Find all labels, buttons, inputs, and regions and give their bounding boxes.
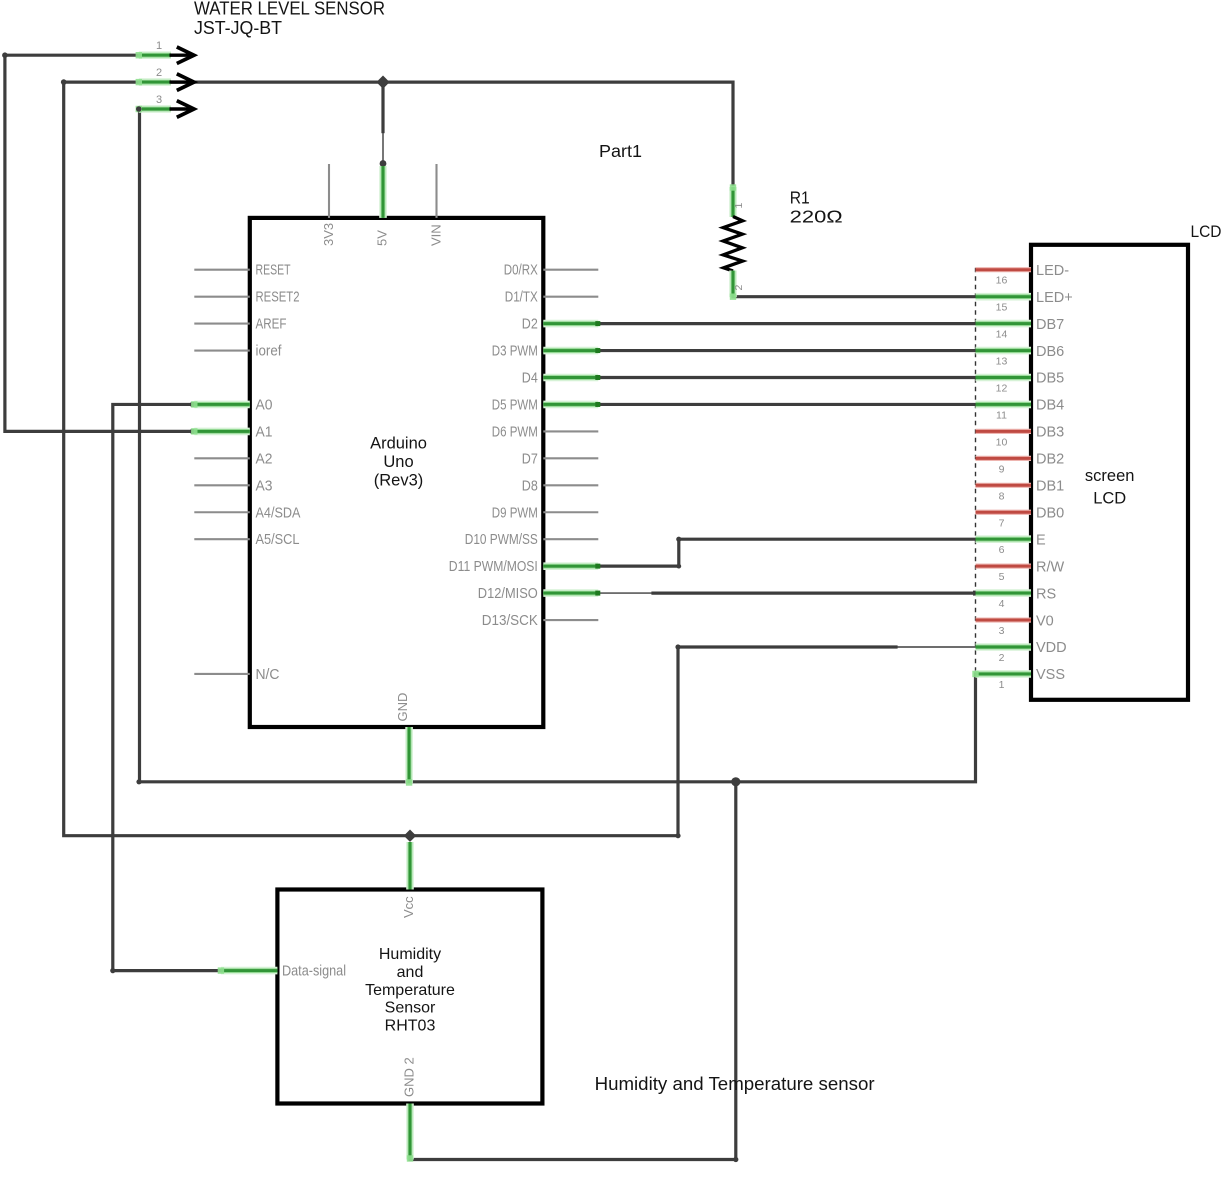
wire A1 to water sensor pin1	[5, 55, 193, 431]
Arduino pin A3	[194, 484, 250, 486]
svg-text:A1: A1	[256, 424, 273, 440]
svg-text:R/W: R/W	[1036, 559, 1065, 575]
svg-text:RESET: RESET	[256, 263, 291, 279]
junction 5V net top	[376, 76, 389, 89]
LCD pin RS (4)	[976, 589, 1032, 597]
Arduino pin D0/RX	[543, 269, 598, 271]
svg-text:6: 6	[999, 544, 1005, 556]
resistor R1 zigzag	[723, 217, 742, 271]
svg-text:Arduino: Arduino	[370, 435, 427, 453]
svg-text:RHT03: RHT03	[385, 1018, 436, 1035]
svg-text:Temperature: Temperature	[365, 982, 455, 999]
svg-text:7: 7	[999, 517, 1005, 529]
svg-text:DB5: DB5	[1036, 371, 1064, 387]
Arduino pin D13/SCK	[543, 619, 598, 621]
svg-text:V0: V0	[1036, 613, 1054, 629]
svg-text:DB1: DB1	[1036, 479, 1064, 495]
svg-text:GND 2: GND 2	[402, 1057, 417, 1097]
svg-text:DB2: DB2	[1036, 452, 1064, 468]
svg-text:LED-: LED-	[1036, 263, 1069, 279]
svg-text:14: 14	[996, 329, 1008, 341]
svg-text:15: 15	[996, 302, 1008, 314]
svg-text:AREF: AREF	[256, 317, 287, 333]
Arduino pin D12/MISO	[543, 589, 598, 597]
svg-text:D13/SCK: D13/SCK	[482, 613, 538, 629]
svg-text:3: 3	[156, 94, 162, 106]
Arduino pin D9 PWM	[543, 511, 598, 513]
svg-text:and: and	[397, 964, 424, 981]
Arduino pin 5V	[379, 166, 387, 218]
LCD pin DB6 (13)	[976, 347, 1032, 355]
wire water pin2 to 5V net vertical	[64, 82, 678, 836]
wire water pin3 to GND net	[137, 109, 141, 782]
Arduino pin D3 PWM	[543, 347, 598, 355]
wire D11 to E	[598, 539, 976, 566]
LCD pin LED- (16)	[976, 267, 1032, 272]
Arduino pin 3V3	[328, 164, 330, 218]
LCD pin DB3 (10)	[976, 429, 1032, 434]
Arduino pin A0	[194, 401, 250, 409]
wire D4 to DB5	[598, 376, 976, 379]
svg-text:Vcc: Vcc	[401, 896, 416, 918]
LCD pin DB4 (11)	[976, 401, 1032, 409]
svg-text:A0: A0	[256, 397, 273, 413]
svg-text:VIN: VIN	[428, 224, 443, 246]
svg-text:LCD: LCD	[1191, 222, 1222, 241]
svg-text:RESET2: RESET2	[256, 290, 300, 306]
Arduino pin D6 PWM	[543, 430, 598, 432]
wire R1 bottom to LED+	[733, 295, 976, 298]
svg-text:(Rev3): (Rev3)	[374, 472, 424, 490]
svg-text:9: 9	[999, 463, 1005, 475]
svg-text:D5 PWM: D5 PWM	[492, 397, 538, 413]
svg-text:2: 2	[733, 285, 745, 291]
svg-text:1: 1	[999, 679, 1005, 691]
svg-text:DB6: DB6	[1036, 344, 1064, 360]
svg-text:4: 4	[999, 598, 1005, 610]
junction GND horizontal	[731, 777, 740, 786]
Arduino pin D1/TX	[543, 296, 598, 298]
svg-text:10: 10	[996, 436, 1008, 448]
svg-text:D0/RX: D0/RX	[504, 263, 538, 279]
Arduino pin ioref	[194, 349, 250, 351]
svg-text:LED+: LED+	[1036, 290, 1073, 306]
Arduino pin RESET2	[194, 296, 250, 298]
wire A0 to Data-signal	[113, 404, 221, 970]
svg-text:D7: D7	[522, 451, 538, 467]
junction Vcc / 5V horizontal	[404, 830, 416, 842]
svg-text:A2: A2	[256, 451, 273, 467]
svg-text:3V3: 3V3	[321, 223, 336, 246]
svg-text:12: 12	[996, 383, 1008, 395]
Arduino pin A2	[194, 457, 250, 459]
svg-text:1: 1	[733, 203, 745, 209]
wire GND horizontal to VSS	[139, 674, 976, 782]
svg-text:DB4: DB4	[1036, 398, 1064, 414]
svg-text:Humidity: Humidity	[379, 946, 441, 963]
Arduino pin D7	[543, 457, 598, 459]
svg-text:220Ω: 220Ω	[790, 207, 843, 227]
LCD pin E (6)	[976, 535, 1032, 543]
svg-text:VSS: VSS	[1036, 667, 1065, 683]
svg-text:2: 2	[999, 652, 1005, 664]
svg-text:VDD: VDD	[1036, 640, 1067, 656]
svg-text:Humidity and Temperature senso: Humidity and Temperature sensor	[595, 1074, 875, 1094]
svg-text:WATER LEVEL SENSOR: WATER LEVEL SENSOR	[194, 0, 385, 19]
svg-text:R1: R1	[790, 188, 810, 208]
svg-text:D4: D4	[522, 371, 538, 387]
svg-text:D2: D2	[522, 317, 538, 333]
Arduino pin A4/SDA	[194, 511, 250, 513]
wire VDD to LCD	[678, 645, 896, 648]
svg-text:ioref: ioref	[256, 344, 283, 360]
svg-text:Part1: Part1	[599, 141, 642, 161]
svg-text:1: 1	[156, 40, 162, 52]
svg-text:N/C: N/C	[256, 667, 280, 683]
svg-text:E: E	[1036, 532, 1046, 548]
LCD pin DB2 (9)	[976, 456, 1032, 461]
RHT03 sensor box	[277, 890, 542, 1104]
svg-text:A5/SCL: A5/SCL	[256, 532, 300, 548]
svg-text:RS: RS	[1036, 586, 1056, 602]
svg-text:Data-signal: Data-signal	[282, 964, 346, 980]
wire sensor GND to GND net	[410, 782, 736, 1160]
LCD pin DB5 (12)	[976, 374, 1032, 382]
svg-text:3: 3	[999, 625, 1005, 637]
svg-text:8: 8	[999, 490, 1005, 502]
Arduino pin N/C	[194, 673, 250, 675]
svg-text:A4/SDA: A4/SDA	[256, 505, 301, 521]
LCD pin VSS (1)	[976, 670, 1032, 678]
svg-text:5: 5	[999, 571, 1005, 583]
svg-text:13: 13	[996, 356, 1008, 368]
Arduino pin VIN	[435, 164, 437, 218]
LCD pin V0 (3)	[976, 617, 1032, 622]
wire D3 to DB6	[598, 349, 976, 352]
LCD pin DB0 (7)	[976, 510, 1032, 515]
svg-text:D10 PWM/SS: D10 PWM/SS	[465, 532, 538, 548]
wire junction to 5V pin	[381, 82, 384, 132]
LCD box	[1031, 245, 1188, 700]
Arduino pin A1	[194, 428, 250, 436]
sensor pin Vcc	[406, 842, 414, 890]
svg-text:Uno: Uno	[383, 453, 413, 471]
svg-text:D1/TX: D1/TX	[505, 290, 538, 306]
svg-text:D9 PWM: D9 PWM	[492, 505, 538, 521]
wire water pin2 to R1 top	[139, 82, 733, 184]
bendpoint dots	[2, 52, 8, 58]
Arduino pin D5 PWM	[543, 401, 598, 409]
svg-text:GND: GND	[395, 693, 410, 722]
Arduino pin D10 PWM/SS	[543, 538, 598, 540]
svg-text:D8: D8	[522, 478, 538, 494]
sensor pin Data-signal	[221, 967, 278, 975]
svg-text:DB3: DB3	[1036, 425, 1064, 441]
Arduino Uno box	[250, 218, 544, 727]
svg-text:D11 PWM/MOSI: D11 PWM/MOSI	[449, 559, 538, 575]
svg-text:16: 16	[996, 275, 1008, 287]
svg-text:11: 11	[996, 409, 1007, 421]
svg-text:D12/MISO: D12/MISO	[478, 586, 538, 602]
LCD pin VDD (2)	[976, 643, 1032, 651]
Arduino pin D8	[543, 484, 598, 486]
svg-text:Sensor: Sensor	[385, 1000, 436, 1017]
svg-text:screen: screen	[1085, 467, 1135, 485]
svg-text:D6 PWM: D6 PWM	[492, 424, 538, 440]
LCD pin DB1 (8)	[976, 483, 1032, 488]
LCD dashed connector line	[975, 268, 977, 676]
Arduino pin RESET	[194, 269, 250, 271]
svg-text:D3 PWM: D3 PWM	[492, 344, 538, 360]
Arduino pin AREF	[194, 323, 250, 325]
LCD pin LED+ (15)	[976, 293, 1032, 301]
LCD pin R/W (5)	[976, 564, 1032, 569]
wire D12 to RS	[598, 592, 654, 594]
svg-text:2: 2	[156, 67, 162, 79]
resistor R1 wire-in green pin 1	[729, 187, 737, 217]
sensor pin GND 2	[406, 1104, 414, 1160]
svg-text:JST-JQ-BT: JST-JQ-BT	[194, 17, 282, 38]
svg-text:5V: 5V	[375, 230, 390, 246]
LCD pin DB7 (14)	[976, 320, 1032, 328]
svg-text:DB7: DB7	[1036, 317, 1064, 333]
svg-text:LCD: LCD	[1093, 490, 1126, 508]
Arduino pin GND	[405, 727, 413, 783]
Arduino pin D2	[543, 320, 598, 328]
Arduino pin A5/SCL	[194, 538, 250, 540]
resistor R1 green pin 2	[729, 271, 737, 298]
svg-text:DB0: DB0	[1036, 505, 1064, 521]
wire D5 to DB4	[598, 403, 976, 406]
Arduino pin D11 PWM/MOSI	[543, 562, 598, 570]
svg-text:A3: A3	[256, 478, 273, 494]
wire D2 to DB7	[598, 322, 976, 325]
Arduino pin D4	[543, 374, 598, 382]
